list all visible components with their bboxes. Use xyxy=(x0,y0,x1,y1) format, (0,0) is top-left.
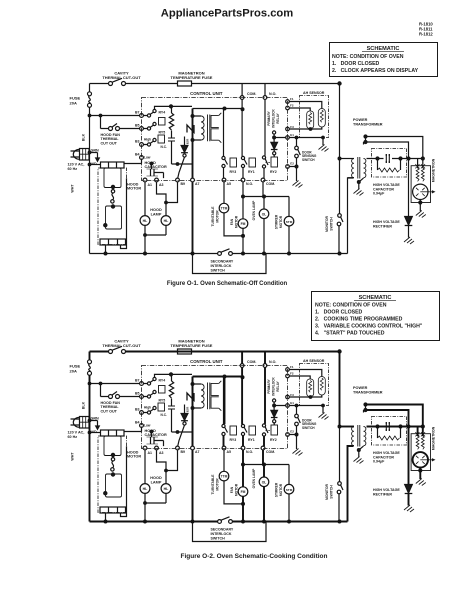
note box 2 xyxy=(312,292,440,341)
svg-text:NOTE: CONDITION OF OVEN: NOTE: CONDITION OF OVEN xyxy=(315,303,387,309)
svg-text:4. "START" PAD TOUCHED: 4. "START" PAD TOUCHED xyxy=(315,331,385,337)
svg-text:3. VARIABLE COOKING CONTROL: 3. VARIABLE COOKING CONTROL "HIGH" xyxy=(315,324,423,330)
model numbers xyxy=(419,22,433,37)
svg-text:AppliancePartsPros.com: AppliancePartsPros.com xyxy=(161,8,293,20)
svg-text:2. CLOCK APPEARS ON DISPLAY: 2. CLOCK APPEARS ON DISPLAY xyxy=(332,68,419,74)
svg-text:2. COOKING TIME PROGRAMMED: 2. COOKING TIME PROGRAMMED xyxy=(315,317,403,323)
svg-text:Figure O-1. Oven Schematic-Off: Figure O-1. Oven Schematic-Off Condition xyxy=(167,281,288,287)
svg-text:Figure O-2. Oven Schematic-Coo: Figure O-2. Oven Schematic-Cooking Condi… xyxy=(181,553,328,560)
svg-text:R-1812: R-1812 xyxy=(419,32,433,37)
svg-text:1. DOOR CLOSED: 1. DOOR CLOSED xyxy=(315,310,363,316)
figure 2 xyxy=(68,339,436,542)
svg-text:1. DOOR CLOSED: 1. DOOR CLOSED xyxy=(332,61,380,67)
svg-text:NOTE: CONDITION OF OVEN: NOTE: CONDITION OF OVEN xyxy=(332,54,404,60)
figure 1 xyxy=(68,71,436,274)
figure 2 energized bold path xyxy=(90,352,428,522)
note box 1 xyxy=(330,43,438,77)
